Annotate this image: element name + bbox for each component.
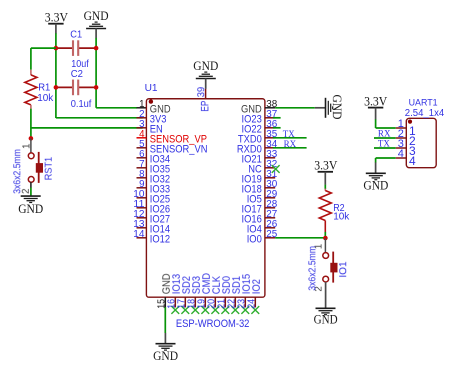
U1 pin 12 IO27 (left) [133,209,170,226]
power flag 3.3V (R2) [314,159,337,185]
ground GND (below RST1) [18,196,43,216]
UART1 pin 2 [396,128,416,148]
ground GND (pin 38, rotated) [326,95,344,120]
wire right rail GND vertical [95,48,97,108]
U1 pin 28 IO17 (right) [242,199,278,216]
U1 pin 8 IO32 (left) [137,169,171,186]
U1 pin 2 3V3 (left) [137,109,167,126]
svg-text:IO2: IO2 [251,279,263,294]
junction C1 right [94,46,99,51]
U1 pin 35 TXD0 (right) [238,129,277,146]
wire IO1 pin2 to ground [325,282,327,308]
U1 pin 13 IO14 (left) [133,219,170,236]
U1 pin 25 IO0 (right) [247,229,278,246]
wire 3.3V to UART1 pin 1 [376,119,396,128]
junction RST1 node [29,136,34,141]
wire stub pin 37 [273,117,281,119]
U1 pin 15 GND (bottom) [156,273,172,308]
U1 pin 21 SD0 (bottom) [216,276,232,314]
U1 pin 7 IO35 (left) [137,159,171,176]
no-connect X on pin 32 NC [272,165,280,173]
U1 pin 17 SD2 (bottom) [176,276,192,314]
U1 pin 9 IO33 (left) [137,179,171,196]
wire RST1 pin2 to ground [30,182,32,196]
svg-text:GND: GND [330,95,344,120]
svg-text:1: 1 [21,144,32,149]
svg-text:RST1: RST1 [43,157,55,181]
svg-text:14: 14 [133,229,145,240]
svg-text:GND: GND [84,9,109,23]
junction C1 left [54,46,59,51]
svg-text:IO12: IO12 [150,234,170,246]
svg-text:GND: GND [153,349,178,363]
U1 pin 34 RXD0 (right) [237,139,278,156]
power flag 3.3V (UART1) [364,94,387,119]
svg-text:U1: U1 [145,83,158,94]
resistor R1 10k [25,70,54,109]
pushbutton IO1 [307,238,349,292]
U1 pin 14 IO12 (left) [133,229,170,246]
U1 pin 29 IO5 (right) [247,189,278,206]
svg-text:IO1: IO1 [337,261,349,277]
wire 3V3 rail to pin 2 [56,117,143,119]
U1 pin 5 SENSOR_VN (left) [137,139,208,156]
wire stub pin 36 [273,127,281,129]
svg-text:C1: C1 [70,29,82,40]
resistor R2 10k [319,189,350,233]
U1 pin 1 GND (left) [139,99,171,116]
svg-text:ESP-WROOM-32: ESP-WROOM-32 [176,318,250,330]
wire R1 bottom to RST1 [30,109,32,139]
U1 pin 39 EP (top) [196,87,211,112]
U1 pin 4 SENSOR_VP (left) [137,129,208,146]
wire 3.3V stem to C1 rail [55,33,57,48]
U1 pin 33 IO21 (right) [242,149,278,166]
svg-text:10k: 10k [37,93,54,104]
svg-text:3.3V: 3.3V [364,94,387,108]
svg-text:RX: RX [284,140,297,150]
svg-text:RX: RX [378,129,391,139]
ground GND (EP pin 39) [193,59,218,89]
U1 pin 26 IO4 (right) [247,219,278,236]
U1 pin 32 NC (right) [248,159,277,176]
U1 pin 10 IO25 (left) [133,189,170,206]
ic U1 ESP-WROOM-32 body [145,83,265,330]
U1 pin 22 SD1 (bottom) [226,276,242,314]
pushbutton RST1 [12,138,54,194]
U1 pin 3 EN (left) [137,119,163,136]
U1 pin 36 IO22 (right) [242,119,278,136]
junction C2 right [94,85,99,90]
U1 pin 31 IO19 (right) [242,169,278,186]
svg-text:UART1: UART1 [409,97,438,108]
U1 pin 24 IO2 (bottom) [246,279,262,314]
svg-text:TX: TX [283,130,295,140]
U1 pin 27 IO16 (right) [242,209,278,226]
svg-text:4: 4 [398,148,404,160]
U1 pin 20 CLK (bottom) [206,275,222,313]
junction C2 left [54,85,59,90]
capacitor C1 [56,29,96,70]
svg-text:3x6x2.5mm: 3x6x2.5mm [12,149,23,194]
svg-text:IO0: IO0 [247,234,262,246]
wire RX from pin 34 [273,147,307,149]
svg-text:2.54_1x4: 2.54_1x4 [405,108,445,119]
wire GND stem down [95,38,97,48]
power flag 3.3V (top left) [45,11,68,34]
wire 3.3V to R2 [324,185,326,189]
connector UART1 body [405,97,445,167]
wire GND rail to pin 1 [96,107,146,109]
svg-text:0.1uf: 0.1uf [71,99,92,110]
wire EN net to pin 3 [31,127,143,129]
U1 pin 38 GND (right) [241,99,277,116]
svg-text:C2: C2 [71,69,84,80]
wire pin 38 to ground [275,107,325,109]
UART1 pin 1 [396,118,416,138]
wire pin 25 IO0 to node [275,237,325,239]
UART1 pin 3 [396,138,416,158]
svg-text:EP: EP [199,101,211,112]
U1 pin 11 IO26 (left) [133,199,170,216]
UART1 pin 4 [396,148,416,168]
svg-text:GND: GND [363,179,388,193]
wire pin 15 to ground [164,307,166,333]
U1 pin 30 IO18 (right) [242,179,278,196]
svg-text:3.3V: 3.3V [45,11,68,25]
wire RX to UART1 pin 2 [374,137,396,139]
UART1 origin marker dot [408,120,412,124]
svg-text:4: 4 [409,154,416,168]
svg-text:GND: GND [18,202,43,216]
U1 origin marker dot [149,99,153,103]
U1 pin 18 SD3 (bottom) [186,276,202,314]
ground GND (top left) [84,9,109,38]
ground GND (UART1) [363,173,388,192]
wire TX to UART1 pin 3 [374,147,396,149]
svg-text:TX: TX [378,139,390,149]
ground GND (bottom, pin 15) [153,333,178,363]
junction IO0 node [323,236,328,241]
ground GND (below IO1) [314,308,338,326]
svg-text:GND: GND [314,313,338,327]
wire left rail 3.3V vertical [55,48,57,118]
svg-text:3.3V: 3.3V [314,159,337,173]
capacitor C2 [56,69,96,110]
U1 pin 37 IO23 (right) [242,109,278,126]
svg-text:24: 24 [246,298,257,308]
svg-text:GND: GND [193,59,218,73]
svg-text:3x6x2.5mm: 3x6x2.5mm [307,246,318,291]
svg-text:R1: R1 [38,83,51,94]
U1 pin 19 CMD (bottom) [196,273,212,314]
svg-text:10k: 10k [333,212,350,223]
wire TX from pin 35 [273,137,307,139]
wire R1 top elbow [31,48,56,70]
U1 pin 16 IO13 (bottom) [166,274,182,314]
U1 pin 6 IO34 (left) [137,149,171,166]
U1 pin 23 IO15 (bottom) [236,274,252,314]
wire R2 bottom to IO0 node [324,232,326,238]
wire UART1 pin 4 to ground [376,158,396,173]
